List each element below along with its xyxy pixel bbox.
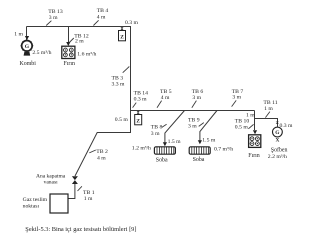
svg-text:TB 8: TB 8 [151,125,163,131]
svg-text:2.2 m³/h: 2.2 m³/h [268,154,287,160]
svg-text:Gaz teslim: Gaz teslim [23,197,48,203]
svg-text:1 m: 1 m [264,106,273,112]
soba2 (radiator) [189,147,210,154]
wire TB3 vertical riser [130,26,132,111]
wire top main run TB13+TB4 [27,26,132,28]
box gaz teslim noktası [50,194,68,213]
wire Z2 meter stub [137,111,139,115]
wire row2 main run TB14/TB5/TB6/TB7 [130,110,255,112]
tick TB10 [248,124,253,128]
tick TB11 [265,112,270,118]
tick TB13 [46,21,51,26]
arrow into soba2 [198,140,202,144]
svg-text:G: G [25,44,30,50]
svg-text:1.5 m: 1.5 m [168,139,182,145]
svg-text:0.5 m: 0.5 m [235,124,249,130]
svg-text:Şofben: Şofben [271,147,288,154]
svg-text:4 m: 4 m [97,155,106,161]
svg-text:X: X [275,137,279,143]
kombi U (circle G) [20,39,33,55]
tick TB7 [232,100,237,106]
svg-text:TB 2: TB 2 [96,149,108,155]
svg-text:TB 4: TB 4 [97,8,109,14]
svg-text:noktası: noktası [23,203,40,209]
gas meter Z2 [135,115,142,125]
wire TB11 branch to Şofben [255,119,278,127]
svg-text:Z: Z [120,35,124,41]
wire soba2 branch diagonal [200,111,217,142]
arrow into fırın2 [253,130,257,134]
svg-text:1.2 m³/h: 1.2 m³/h [132,146,151,152]
tick TB1 [78,186,82,191]
svg-text:TB 13: TB 13 [48,9,63,15]
svg-text:TB 9: TB 9 [188,117,200,123]
tick TB14 [133,103,137,108]
tick TB2 [89,150,96,153]
svg-text:3 m: 3 m [192,95,201,101]
svg-text:Fırın: Fırın [248,153,260,159]
arrow into fırın1 [66,42,70,46]
svg-text:2.5 m³/h: 2.5 m³/h [32,50,51,56]
svg-text:4 m: 4 m [97,14,106,20]
svg-text:Şekil-5.3: Bina içi gaz tesisa: Şekil-5.3: Bina içi gaz tesisatı bölümle… [25,226,136,233]
svg-text:0.5 m: 0.5 m [115,117,129,123]
wire Z1 meter stub [121,27,123,31]
svg-text:0.3 m: 0.3 m [280,123,294,129]
şofben U (circle G with X stand) [273,127,283,143]
arrow into soba1 [163,142,167,146]
svg-text:TB 3: TB 3 [112,75,124,81]
valve ana kapatma (bowtie) [72,176,78,184]
svg-text:1 m: 1 m [14,31,23,37]
wire soba1 branch diagonal [165,111,185,144]
tick TB3 [123,67,130,73]
svg-text:2 m: 2 m [75,39,84,45]
wire right end drop to Fırın2 [254,111,256,131]
svg-text:Soba: Soba [156,157,168,163]
svg-text:1.6 m³/h: 1.6 m³/h [77,52,96,58]
svg-text:0.3 m: 0.3 m [134,97,148,103]
tick TB8 [162,124,167,127]
wire TB1 from valve to delivery box [68,184,75,199]
connector Z1 [120,28,123,30]
wire kombi drop [26,27,28,41]
svg-text:Z: Z [136,119,140,125]
tick TB6 [192,101,197,108]
svg-text:3.3 m: 3.3 m [112,82,126,88]
arrow into kombi [25,36,29,40]
svg-text:Ana kapatma: Ana kapatma [36,173,66,179]
svg-text:0.7 m³/h: 0.7 m³/h [214,147,233,153]
wire TB2 run down-left [75,111,131,177]
connector şofben [276,122,279,124]
svg-text:3 m: 3 m [188,124,197,130]
svg-text:4 m: 4 m [161,95,170,101]
svg-text:1 m: 1 m [84,196,93,202]
svg-text:Fırın: Fırın [64,61,76,67]
connector Z2 [137,111,140,113]
soba1 (radiator) [154,147,175,154]
svg-text:TB 1: TB 1 [83,190,95,196]
fırın F2 (oven 4 burners) [249,135,261,148]
svg-text:vanası: vanası [44,180,59,186]
fırın F1 (oven 4 burners) [62,46,75,58]
svg-text:3 m: 3 m [232,95,241,101]
svg-text:3 m: 3 m [151,131,160,137]
svg-text:Kombi: Kombi [20,61,37,67]
svg-text:1.5 m: 1.5 m [202,138,216,144]
gas meter Z1 [119,31,126,41]
svg-text:Soba: Soba [193,157,205,163]
tick TB12 [69,38,74,43]
tick TB9 [199,123,204,127]
wire TB12 branch to Fırın [68,27,70,44]
svg-text:0.3 m: 0.3 m [125,20,139,26]
svg-text:3 m: 3 m [49,15,58,21]
tick TB5 [157,101,162,108]
tick TB4 [93,20,98,25]
